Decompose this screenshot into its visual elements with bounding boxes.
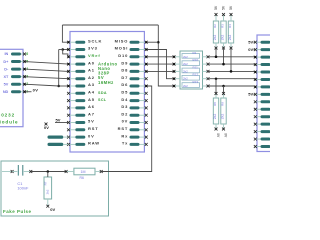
ic U2 right pin D5	[121, 90, 147, 95]
svg-text:Module: Module	[0, 120, 18, 125]
net 0V floating label	[44, 123, 49, 130]
net 5V at U3 pin 1	[248, 40, 255, 45]
ic U2 left pin A6	[67, 104, 95, 109]
wire pack row 5 to U3 pin 7	[208, 85, 255, 87]
wire pack row 4 to U3 pin 6	[208, 78, 255, 80]
svg-text:A6: A6	[88, 104, 95, 109]
wire pack row 1 to U3 pin 3	[208, 56, 255, 58]
svg-text:R4: R4	[228, 24, 232, 28]
svg-text:R1: R1	[193, 51, 197, 55]
wire row D7 to R8	[215, 79, 217, 94]
svg-text:2k2: 2k2	[183, 55, 188, 59]
wire U1 pin 3 to A2	[25, 77, 69, 79]
ic U2 right pin D6	[121, 82, 147, 87]
svg-text:2k2: 2k2	[183, 77, 188, 81]
resistor R7 to ground	[43, 172, 51, 208]
svg-text:A7: A7	[88, 111, 95, 116]
ic U2 left pin A7	[67, 111, 95, 116]
wire 3V3 bus top	[62, 24, 158, 26]
svg-text:ND: ND	[3, 90, 9, 94]
module U3 pin 11	[254, 115, 271, 118]
svg-text:R6: R6	[80, 176, 84, 180]
wire R2 to row D10	[215, 48, 218, 58]
module U1 pin 6	[4, 52, 28, 56]
wire U1 pin 4 to A1	[25, 69, 69, 71]
svg-text:5V: 5V	[248, 92, 253, 97]
module U3 pin 14	[254, 138, 271, 141]
ic U2 left pin A2	[67, 75, 95, 80]
svg-text:C0232: C0232	[0, 113, 15, 118]
wire 3V3 column down	[57, 50, 60, 88]
wire R3 to row D9	[222, 48, 225, 65]
ic U2 right pin D8	[121, 68, 147, 73]
svg-text:R11: R11	[193, 65, 199, 69]
svg-text:2k2: 2k2	[183, 62, 188, 66]
svg-text:IN: IN	[4, 52, 8, 56]
svg-text:0V: 0V	[122, 119, 129, 124]
wire pack row 3 to U3 pin 5	[208, 70, 255, 72]
resistor R1 2k2 series	[173, 51, 210, 59]
ic U2 left pin 0V	[67, 133, 95, 138]
svg-text:D5: D5	[121, 90, 128, 95]
module U1 pin 2	[4, 82, 29, 86]
ic U2 right pin Rx	[121, 133, 147, 138]
wire pack row 2 to U3 pin 4	[208, 63, 255, 65]
wire column to A3	[59, 85, 69, 87]
net 5V at U2	[55, 117, 69, 122]
module U3 pin 7	[254, 85, 271, 88]
svg-text:D+: D+	[3, 60, 9, 64]
capacitor C1 100nF	[12, 165, 32, 191]
connector J1 pin 1	[48, 136, 69, 139]
resistor R10 2k2 series	[173, 58, 210, 66]
wire frame stub	[2, 170, 14, 173]
module U1 pin 3	[3, 74, 28, 78]
ic U2 right pin MOSI	[115, 46, 148, 51]
svg-text:A3: A3	[88, 82, 95, 87]
ic U2 left pin RAW	[67, 141, 100, 146]
wire pulse out to D6	[101, 86, 152, 172]
ic U2 right pin D3	[121, 104, 147, 109]
junction R8 row	[215, 77, 218, 80]
svg-text:2k2: 2k2	[221, 35, 225, 41]
svg-text:D2: D2	[121, 111, 128, 116]
wire 3V3 down to R13	[157, 25, 174, 86]
wire row D6 to R9	[223, 86, 225, 94]
svg-text:2k2: 2k2	[183, 84, 188, 88]
wire endpoint dots	[67, 41, 69, 43]
svg-text:5V: 5V	[248, 40, 253, 45]
module U3 pin 2	[254, 48, 271, 51]
ic U2 right pin D9	[121, 60, 147, 65]
resistor R6 1M	[65, 168, 103, 180]
svg-text:A0: A0	[88, 60, 95, 65]
module U1 label	[0, 113, 18, 125]
module U1 pin 1	[3, 90, 28, 94]
module U3 pin 15	[254, 145, 271, 148]
svg-text:0V: 0V	[88, 133, 95, 138]
svg-text:SCLK: SCLK	[88, 38, 102, 43]
svg-text:R12: R12	[193, 73, 199, 77]
module U3 pin 8	[254, 93, 271, 96]
svg-text:2k2: 2k2	[213, 114, 217, 120]
svg-text:6: 6	[26, 52, 28, 56]
wire R4 to row D8	[230, 48, 233, 73]
ic U2 right pin RST	[118, 126, 148, 131]
ic U2 left pin A3	[67, 82, 95, 87]
svg-text:D9: D9	[121, 60, 128, 65]
net 5V at U3 pin 8	[248, 92, 255, 97]
module U3 pin 5	[254, 71, 271, 74]
resistor R12 2k2 series	[173, 73, 210, 81]
ic U2 left pin A5	[67, 97, 107, 102]
module U3 pin 9	[254, 100, 271, 103]
svg-text:A2: A2	[88, 75, 95, 80]
module U3 pin 10	[254, 108, 271, 111]
svg-text:VRef: VRef	[88, 53, 101, 58]
junction R9 row	[222, 85, 225, 88]
ic U2 left pin A0	[67, 60, 95, 65]
svg-text:SCL: SCL	[98, 98, 107, 102]
svg-text:SDA: SDA	[98, 91, 107, 95]
svg-text:D6: D6	[121, 82, 128, 87]
ic U2 right pin D4	[121, 97, 147, 102]
svg-text:R7: R7	[43, 181, 47, 185]
ic U2 left pin 3V3	[67, 46, 98, 51]
svg-text:MISO: MISO	[115, 38, 129, 43]
subcircuit frame Fake Pulse	[1, 161, 109, 216]
svg-text:16MHz: 16MHz	[98, 80, 114, 85]
svg-text:2k2: 2k2	[46, 189, 50, 194]
svg-text:2k2: 2k2	[183, 69, 188, 73]
svg-text:XT: XT	[3, 75, 9, 79]
module U1 USB-serial box	[0, 49, 23, 126]
resistor R11 2k2 series	[173, 65, 210, 73]
junction R4 row	[230, 70, 233, 73]
svg-text:100nF: 100nF	[17, 186, 29, 191]
module U3 pin 6	[254, 78, 271, 81]
svg-text:R9: R9	[220, 102, 224, 106]
module U3 pin 1	[254, 41, 271, 44]
module U3 pin 4	[254, 63, 271, 66]
svg-text:D10: D10	[118, 53, 128, 58]
wire 3V3 left	[59, 49, 63, 51]
svg-text:R13: R13	[193, 80, 199, 84]
resistor R8 2k2 terminator	[213, 92, 219, 130]
wire D9 to R10	[146, 63, 174, 65]
net 0V at U1 pin 1	[25, 87, 39, 92]
module U3 display header box	[257, 35, 287, 152]
svg-text:D3: D3	[121, 104, 128, 109]
svg-text:0V: 0V	[44, 125, 49, 130]
wire 3V3 to VRef	[63, 50, 69, 57]
ic U2 right pin D10	[118, 53, 147, 58]
ic U2 left pin A4	[67, 90, 107, 95]
ic U2 Arduino Nano box	[70, 32, 144, 153]
svg-text:3V3: 3V3	[88, 46, 98, 51]
resistor pack frame	[180, 51, 203, 89]
svg-text:0V: 0V	[33, 87, 39, 92]
svg-text:Rx: Rx	[121, 133, 128, 138]
svg-text:0V: 0V	[50, 207, 55, 212]
module U3 pin 3	[254, 56, 271, 59]
wire 3V3 stub	[61, 48, 68, 51]
svg-text:5V: 5V	[56, 117, 61, 122]
svg-text:1M: 1M	[81, 170, 86, 174]
svg-text:Tx: Tx	[122, 141, 128, 146]
svg-text:A1: A1	[88, 68, 95, 73]
wire D8 to R11	[146, 70, 174, 72]
svg-text:D7: D7	[121, 75, 128, 80]
wire C1 to R6	[31, 170, 66, 173]
ic U2 left pin VRef	[67, 53, 100, 58]
svg-text:R10: R10	[193, 58, 199, 62]
ic U2 right pin 0V	[122, 119, 148, 124]
ic U2 right pin D2	[121, 111, 147, 116]
svg-text:A4: A4	[88, 90, 95, 95]
wire U1 pin 2 to A3	[25, 84, 59, 86]
ic U2 title	[98, 62, 118, 85]
svg-text:2k2: 2k2	[228, 35, 232, 41]
module U1 pin 5	[3, 59, 28, 63]
connector J1 pin 2	[48, 143, 69, 146]
svg-text:RST: RST	[88, 126, 99, 131]
svg-text:2k2: 2k2	[213, 35, 217, 41]
svg-text:RAW: RAW	[88, 141, 100, 146]
ic U2 right pin MISO	[115, 38, 148, 43]
wire MISO	[146, 41, 158, 43]
svg-text:Fake Pulse: Fake Pulse	[3, 209, 31, 214]
wire bus to SCLK	[62, 25, 68, 42]
svg-text:R3: R3	[220, 24, 224, 28]
module U3 pin 12	[254, 123, 271, 126]
ic U2 right pin Tx	[122, 141, 148, 146]
svg-text:A5: A5	[88, 97, 95, 102]
resistor R9 2k2 terminator	[220, 92, 226, 130]
wire D10 to R1	[146, 56, 174, 58]
svg-text:MOSI: MOSI	[115, 46, 129, 51]
resistor R2 2k2 pull-up	[213, 13, 219, 49]
svg-text:0V: 0V	[248, 47, 253, 52]
resistor R13 2k2 series	[173, 80, 210, 88]
wire U1 pin 5 to A0	[25, 62, 69, 65]
resistor R3 2k2 pull-up	[220, 13, 226, 49]
ic U2 left pin RST	[67, 126, 99, 131]
svg-text:D8: D8	[121, 68, 128, 73]
module U3 pin 13	[254, 130, 271, 133]
svg-text:D4: D4	[121, 97, 128, 102]
svg-text:5V: 5V	[4, 82, 9, 86]
junction R3 row	[222, 63, 225, 66]
ic U2 right pin D7	[121, 75, 147, 80]
ic U2 left pin SCLK	[67, 38, 102, 43]
svg-text:5V: 5V	[88, 119, 95, 124]
svg-text:RST: RST	[118, 126, 129, 131]
wire MOSI to R12	[146, 50, 174, 79]
svg-text:R8: R8	[213, 102, 217, 106]
junction R2 row	[215, 56, 218, 59]
resistor R4 2k2 pull-up	[228, 13, 234, 49]
svg-text:2k2: 2k2	[221, 114, 225, 120]
svg-text:R2: R2	[213, 24, 217, 28]
module U1 pin 4	[4, 67, 28, 71]
ic U2 left pin 5V	[67, 119, 95, 124]
net 0V at U3 pin 2	[248, 47, 255, 52]
ic U2 left pin A1	[67, 68, 95, 73]
